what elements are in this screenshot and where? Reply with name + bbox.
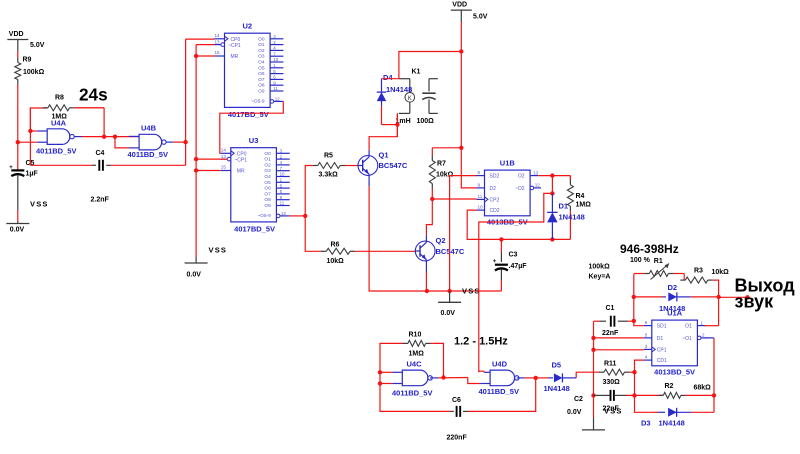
- svg-text:1N4148: 1N4148: [386, 85, 412, 94]
- svg-text:4011BD_5V: 4011BD_5V: [479, 387, 519, 396]
- svg-text:VDD: VDD: [452, 2, 467, 9]
- svg-text:220nF: 220nF: [447, 435, 468, 442]
- svg-text:VSS: VSS: [209, 246, 228, 255]
- svg-text:0.0V: 0.0V: [567, 409, 582, 416]
- svg-text:12: 12: [281, 211, 286, 216]
- svg-text:CP0: CP0: [231, 37, 241, 43]
- svg-text:~CP1: ~CP1: [228, 43, 241, 49]
- svg-text:Key=A: Key=A: [589, 274, 611, 281]
- svg-text:4011BD_5V: 4011BD_5V: [392, 389, 432, 398]
- svg-text:U4D: U4D: [492, 360, 508, 369]
- svg-text:4017BD_5V: 4017BD_5V: [228, 110, 269, 119]
- svg-text:MR: MR: [237, 169, 245, 175]
- svg-text:1N4148: 1N4148: [659, 419, 685, 428]
- svg-text:~CP1: ~CP1: [234, 158, 247, 164]
- svg-text:1: 1: [700, 320, 703, 325]
- svg-text:O8: O8: [264, 197, 271, 203]
- svg-text:3: 3: [645, 344, 648, 349]
- svg-text:0.0V: 0.0V: [441, 310, 456, 317]
- svg-text:D2: D2: [490, 186, 497, 192]
- svg-text:MR: MR: [231, 54, 239, 60]
- svg-text:330Ω: 330Ω: [603, 379, 621, 386]
- svg-text:C3: C3: [509, 252, 518, 259]
- svg-text:9: 9: [478, 182, 481, 187]
- svg-text:O0: O0: [258, 36, 265, 42]
- svg-text:12: 12: [275, 96, 280, 101]
- svg-text:15: 15: [221, 165, 227, 170]
- svg-text:100kΩ: 100kΩ: [23, 69, 45, 76]
- svg-text:K1: K1: [412, 69, 421, 76]
- svg-text:O1: O1: [264, 157, 271, 163]
- svg-text:4011BD_5V: 4011BD_5V: [128, 150, 168, 159]
- svg-text:2: 2: [702, 333, 705, 338]
- svg-text:C1: C1: [606, 305, 615, 312]
- svg-text:VSS: VSS: [462, 287, 481, 296]
- svg-text:O6: O6: [264, 186, 271, 192]
- svg-text:5.0V: 5.0V: [30, 42, 45, 49]
- svg-text:~O1: ~O1: [682, 336, 692, 342]
- svg-text:O0: O0: [264, 151, 271, 157]
- svg-text:R5: R5: [324, 153, 333, 160]
- svg-text:R6: R6: [331, 242, 340, 249]
- svg-text:R1: R1: [654, 258, 663, 265]
- svg-text:4013BD_5V: 4013BD_5V: [654, 367, 695, 376]
- svg-text:SD2: SD2: [490, 174, 500, 180]
- svg-text:CD1: CD1: [657, 358, 667, 364]
- svg-text:1N4148: 1N4148: [544, 384, 570, 393]
- svg-text:O1: O1: [685, 324, 692, 330]
- svg-text:1MΩ: 1MΩ: [576, 202, 592, 209]
- svg-text:13: 13: [221, 154, 227, 159]
- svg-text:10: 10: [478, 205, 484, 210]
- svg-text:11: 11: [273, 86, 278, 91]
- svg-text:O2: O2: [518, 174, 525, 180]
- svg-text:100 %: 100 %: [630, 257, 651, 264]
- svg-text:O8: O8: [258, 83, 265, 89]
- svg-text:D1: D1: [657, 336, 664, 342]
- svg-text:5.0V: 5.0V: [473, 14, 488, 21]
- svg-text:R4: R4: [576, 193, 585, 200]
- svg-text:O2: O2: [264, 162, 271, 168]
- svg-text:1N4148: 1N4148: [659, 304, 685, 313]
- svg-text:946-398Hz: 946-398Hz: [620, 242, 679, 256]
- svg-text:12: 12: [535, 183, 541, 188]
- svg-text:68kΩ: 68kΩ: [694, 385, 712, 392]
- svg-text:R11: R11: [604, 361, 617, 368]
- svg-text:VSS: VSS: [604, 407, 623, 416]
- svg-text:VSS: VSS: [30, 200, 49, 209]
- svg-text:U2: U2: [243, 22, 253, 31]
- svg-text:O5: O5: [264, 180, 271, 186]
- svg-text:O2: O2: [258, 48, 265, 54]
- svg-text:R10: R10: [409, 332, 422, 339]
- svg-text:100kΩ: 100kΩ: [589, 264, 611, 271]
- svg-text:O5: O5: [258, 65, 265, 71]
- svg-text:4011BD_5V: 4011BD_5V: [36, 146, 76, 155]
- svg-text:O6: O6: [258, 71, 265, 77]
- svg-text:U3: U3: [249, 136, 259, 145]
- svg-text:C6: C6: [452, 397, 461, 404]
- svg-text:U4A: U4A: [51, 118, 67, 127]
- svg-text:14: 14: [221, 148, 227, 153]
- svg-text:10kΩ: 10kΩ: [327, 258, 345, 265]
- svg-text:4017BD_5V: 4017BD_5V: [234, 225, 275, 234]
- svg-text:10: 10: [280, 172, 285, 177]
- svg-text:U4B: U4B: [141, 123, 157, 132]
- svg-text:Q2: Q2: [436, 236, 446, 245]
- svg-text:13: 13: [215, 39, 221, 44]
- svg-text:O7: O7: [258, 77, 265, 83]
- svg-text:D5: D5: [552, 361, 562, 370]
- svg-text:D4: D4: [383, 73, 393, 82]
- svg-text:5: 5: [645, 332, 648, 337]
- svg-text:R3: R3: [694, 268, 703, 275]
- svg-text:6: 6: [645, 320, 648, 325]
- svg-text:CP2: CP2: [490, 197, 500, 203]
- svg-text:22nF: 22nF: [602, 330, 619, 337]
- svg-text:O9: O9: [258, 89, 265, 95]
- svg-text:U4C: U4C: [407, 360, 423, 369]
- svg-text:O3: O3: [258, 54, 265, 60]
- svg-text:R2: R2: [665, 383, 674, 390]
- svg-text:CP0: CP0: [237, 151, 247, 157]
- svg-text:~O2: ~O2: [515, 186, 525, 192]
- svg-text:D1: D1: [559, 202, 569, 211]
- svg-text:C4: C4: [96, 150, 105, 157]
- svg-text:Q1: Q1: [379, 151, 389, 160]
- svg-text:11: 11: [280, 201, 285, 206]
- svg-text:O9: O9: [264, 203, 271, 209]
- svg-text:14: 14: [215, 33, 221, 38]
- svg-text:SD1: SD1: [657, 324, 667, 330]
- svg-text:O3: O3: [264, 168, 271, 174]
- svg-text:C2: C2: [574, 396, 583, 403]
- svg-text:6: 6: [478, 170, 481, 175]
- svg-text:10kΩ: 10kΩ: [712, 269, 730, 276]
- svg-text:R8: R8: [55, 95, 64, 102]
- svg-text:CP1: CP1: [657, 347, 667, 353]
- svg-text:1.2 - 1.5Hz: 1.2 - 1.5Hz: [454, 336, 508, 348]
- svg-text:BC547C: BC547C: [379, 161, 408, 170]
- svg-text:CD2: CD2: [490, 208, 500, 214]
- svg-text:4: 4: [645, 355, 648, 360]
- svg-text:K: K: [408, 96, 412, 102]
- svg-text:+: +: [9, 165, 13, 171]
- svg-text:24s: 24s: [79, 85, 108, 105]
- svg-text:R7: R7: [437, 161, 446, 168]
- svg-text:13: 13: [533, 170, 539, 175]
- svg-text:1N4148: 1N4148: [559, 213, 585, 222]
- svg-text:10: 10: [273, 57, 278, 62]
- svg-text:11: 11: [478, 194, 483, 199]
- svg-text:U1B: U1B: [500, 159, 516, 168]
- svg-text:3.3kΩ: 3.3kΩ: [319, 172, 339, 179]
- svg-text:100Ω: 100Ω: [417, 118, 435, 125]
- svg-text:2.2nF: 2.2nF: [91, 197, 110, 204]
- svg-text:1MΩ: 1MΩ: [409, 351, 425, 358]
- svg-text:O7: O7: [264, 191, 271, 197]
- svg-text:0.0V: 0.0V: [10, 227, 25, 234]
- svg-text:D3: D3: [641, 419, 651, 428]
- svg-text:15: 15: [215, 50, 221, 55]
- svg-text:O1: O1: [258, 42, 265, 48]
- svg-text:звук: звук: [735, 292, 775, 312]
- svg-text:.47µF: .47µF: [509, 263, 528, 270]
- svg-text:O4: O4: [258, 60, 265, 66]
- svg-text:1µF: 1µF: [26, 170, 39, 177]
- svg-text:+: +: [493, 259, 497, 265]
- svg-text:0.0V: 0.0V: [187, 272, 202, 279]
- svg-text:O4: O4: [264, 174, 271, 180]
- svg-text:~O5-9: ~O5-9: [257, 213, 271, 219]
- svg-text:VDD: VDD: [9, 31, 24, 38]
- svg-text:R9: R9: [23, 57, 32, 64]
- svg-text:~O5-9: ~O5-9: [251, 99, 265, 105]
- svg-text:D2: D2: [668, 283, 678, 292]
